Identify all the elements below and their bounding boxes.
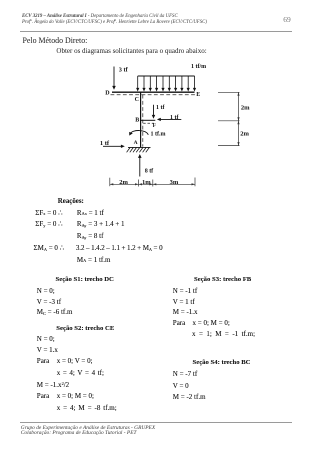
eq row 5: [77, 257, 111, 264]
distributed load arrows: [138, 76, 195, 88]
load 1 tf vertical at F: [153, 105, 155, 116]
svg-text:B: B: [135, 117, 139, 123]
eq row 1: [35, 210, 62, 217]
svg-text:2m: 2m: [119, 179, 128, 186]
Section S1 heading: [56, 277, 114, 284]
beam DE solid: [112, 91, 195, 93]
member BF axis dashed: [143, 122, 154, 124]
footer line 1: [21, 426, 155, 438]
eq row 4: [34, 245, 65, 252]
Reações heading: [58, 199, 84, 206]
bottom dimension line: [110, 183, 195, 185]
svg-text:3m: 3m: [170, 179, 179, 186]
svg-text:1m: 1m: [142, 179, 151, 186]
member BF solid: [141, 119, 156, 121]
svg-text:2m: 2m: [241, 104, 250, 111]
bottom dimension extension ticks: [110, 178, 195, 187]
svg-text:E: E: [196, 92, 200, 98]
svg-text:C: C: [135, 97, 139, 103]
eq row 2: [35, 221, 62, 228]
svg-text:D: D: [105, 90, 110, 96]
moment 1 tf.m arc at A: [130, 131, 148, 135]
Section S4 heading: [193, 360, 251, 367]
svg-text:F: F: [153, 123, 157, 129]
column axis dashed: [142, 95, 144, 147]
svg-text:1 tf: 1 tf: [170, 115, 179, 121]
load 3 tf arrow at D: [113, 67, 115, 87]
Section S2 heading: [56, 326, 114, 333]
svg-text:1 tf: 1 tf: [156, 105, 165, 111]
reaction 8 tf vertical arrow at A: [139, 157, 141, 177]
svg-text:1 tf: 1 tf: [100, 140, 110, 147]
svg-text:8 tf: 8 tf: [145, 168, 154, 174]
support ground line at A: [128, 146, 151, 148]
svg-text:1 tf/m: 1 tf/m: [191, 64, 206, 70]
right dimension vertical line: [238, 92, 240, 145]
bottom dimension arrowheads: [110, 183, 195, 185]
header line 1 and 2: [22, 14, 207, 26]
svg-text:2m: 2m: [240, 130, 249, 137]
title: Pelo Método Direto:: [23, 37, 88, 45]
frame diagram: [0, 55, 320, 195]
distributed load 1 tf/m top line: [138, 75, 195, 77]
right dimension extension lines: [218, 92, 240, 145]
footer rule: [20, 421, 292, 424]
svg-text:1 tf.m: 1 tf.m: [151, 131, 166, 137]
column CA solid: [140, 92, 142, 147]
right dimension arrowheads: [237, 92, 239, 145]
Section S3 heading: [194, 277, 251, 284]
beam axis dashed: [111, 94, 197, 96]
svg-text:3 tf: 3 tf: [119, 67, 129, 74]
page number 69: [283, 16, 291, 24]
header rule: [20, 30, 292, 33]
support hatching: [127, 148, 150, 153]
reaction 1 tf horizontal arrow at A: [103, 145, 122, 147]
svg-text:A: A: [134, 140, 138, 146]
load 1 tf horizontal at F: [160, 118, 181, 120]
eq row 3: [77, 233, 104, 240]
subtitle: [56, 48, 206, 55]
